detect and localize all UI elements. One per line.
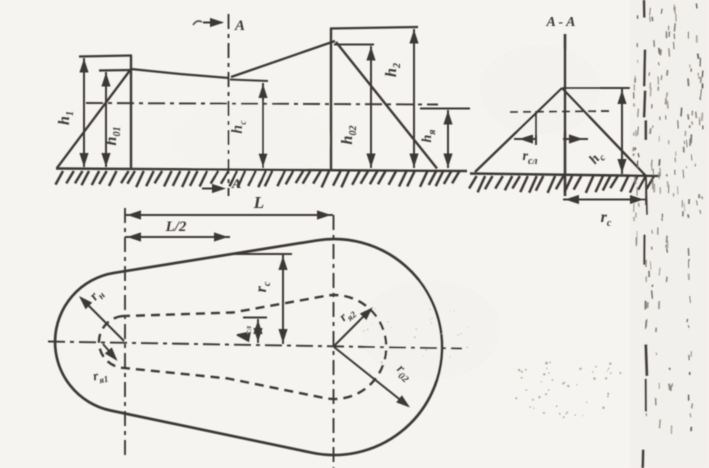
dimension r-sl plan: [253, 319, 262, 343]
svg-text:rсл: rсл: [522, 149, 537, 167]
dimension h-ya: [443, 110, 452, 168]
svg-text:rя2: rя2: [336, 303, 359, 326]
dimension hc section: [617, 89, 626, 174]
dimension L над 2: [125, 232, 230, 241]
svg-text:h2: h2: [383, 63, 403, 77]
small arrow at r-sl: [236, 333, 251, 342]
dashed seepage line: [510, 111, 612, 112]
dimension rc section: [563, 195, 646, 204]
radius arrow r-n: [79, 296, 124, 341]
dimension h02: [366, 46, 375, 168]
radius arrow r-ya2: [334, 307, 373, 346]
svg-text:hс: hс: [587, 148, 609, 169]
svg-text:L: L: [253, 193, 264, 212]
water level dash-dot line: [86, 103, 438, 105]
svg-text:h02: h02: [339, 126, 359, 145]
left embankment top cap: [79, 56, 132, 57]
svg-text:A: A: [231, 177, 241, 192]
left embankment slope line: [57, 69, 131, 168]
left embankment inner cap: [99, 69, 132, 72]
section arrow bottom: [202, 184, 226, 193]
scanner speckle noise: [363, 3, 703, 433]
tick at seepage intersection: [535, 111, 537, 145]
scanner streak main: [643, 0, 647, 468]
extension below ground centreline: [645, 176, 647, 205]
r-sl plan reference line: [243, 317, 267, 319]
left embankment right edge: [130, 56, 132, 171]
hc reference line at dip: [230, 80, 268, 82]
plan horizontal centreline: [48, 342, 462, 349]
paper tint right band: [630, 0, 709, 468]
svg-text:rс: rс: [601, 209, 612, 229]
svg-text:L/2: L/2: [165, 219, 187, 235]
dimension h1: [79, 58, 88, 167]
plan outer outline: [55, 239, 442, 455]
crest line left-to-centre: [131, 69, 229, 78]
section triangle left slope: [475, 88, 562, 172]
svg-text:h1: h1: [56, 111, 76, 125]
section centreline: [564, 34, 567, 196]
plan right vertical centreline: [333, 215, 335, 468]
svg-text:rс: rс: [253, 281, 273, 292]
svg-text:rя1: rя1: [92, 366, 110, 387]
ground hatching (elevation): [56, 171, 460, 187]
radius arrow r-ya1: [103, 344, 118, 361]
apex reference line: [562, 87, 630, 89]
ground line (elevation): [56, 169, 467, 172]
plan inner dashed outline: [99, 295, 386, 399]
dimension L: [125, 210, 333, 219]
h-ya reference line: [420, 108, 470, 110]
right embankment top cap: [330, 27, 418, 29]
svg-text:A: A: [234, 18, 245, 34]
dimension r-sl section: [514, 134, 588, 143]
dimension rc plan: [278, 255, 287, 344]
rc plan reference line: [232, 253, 292, 255]
dimension h01: [101, 72, 110, 167]
svg-text:A - A: A - A: [545, 15, 575, 30]
dimension h2: [409, 29, 418, 168]
plan left vertical centreline: [124, 208, 126, 455]
crest line centre-to-peak: [231, 41, 335, 77]
right embankment left edge: [330, 28, 332, 170]
right embankment slope line: [336, 42, 437, 169]
dimension hc elevation: [258, 83, 267, 168]
section arrow top: [193, 18, 224, 27]
radius arrow r-02: [334, 347, 410, 408]
paper mottle: [170, 45, 600, 380]
ground hatching (section): [469, 176, 654, 193]
section line A-A vertical: [228, 14, 230, 196]
svg-text:hя: hя: [420, 130, 438, 143]
right embankment peak ref line: [334, 43, 374, 45]
section triangle right slope: [562, 88, 646, 176]
ground line (section): [470, 174, 660, 177]
